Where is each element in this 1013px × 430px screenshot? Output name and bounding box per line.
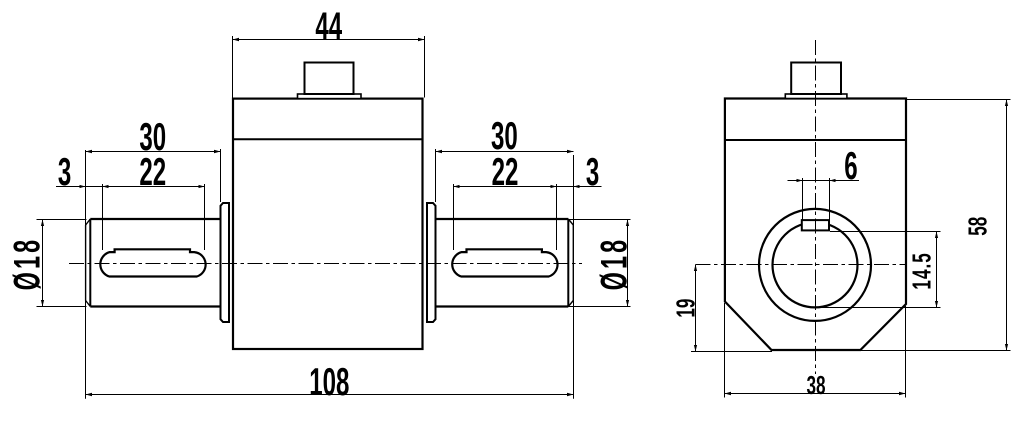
left flange: [221, 203, 230, 322]
dimension text Ø18 (left): [6, 237, 48, 291]
connector base plate (front view): [298, 94, 362, 99]
dimension text 22 (right): [492, 150, 519, 193]
svg-text:3: 3: [58, 150, 71, 193]
dimension 22 / 3 (left): [56, 184, 205, 250]
dimension text 30 (right): [491, 114, 518, 157]
svg-text:6: 6: [844, 144, 857, 187]
horizontal centerline (side view): [696, 264, 907, 266]
dimension text 108: [309, 360, 349, 403]
keyway slot (left shaft): [100, 249, 205, 276]
keyway notch (side view): [802, 220, 829, 230]
bore outer circle: [759, 209, 871, 321]
svg-text:Ø18: Ø18: [593, 237, 635, 291]
dimension text 22 (left): [139, 150, 166, 193]
body cap line (side view): [725, 139, 906, 141]
right flange: [427, 203, 436, 322]
vertical centerline (side view): [815, 40, 817, 374]
dimension 6 (keyway width): [788, 178, 860, 220]
dimension 30 (right): [436, 149, 574, 202]
dimension 44 (body width): [233, 36, 425, 98]
svg-text:14.5: 14.5: [907, 252, 937, 289]
dimension text Ø18 (right): [593, 237, 635, 291]
keyway slot (right shaft): [452, 249, 557, 276]
dimension text 3 (right): [586, 150, 599, 193]
svg-text:22: 22: [492, 150, 519, 193]
body (side view, chamfered base): [725, 99, 906, 351]
connector block (side view): [791, 63, 841, 95]
svg-text:3: 3: [586, 150, 599, 193]
dimension 38 (base width): [725, 303, 906, 398]
dimension text 6: [844, 144, 857, 187]
dimension 58 (body height): [860, 100, 1010, 351]
right shaft: [436, 219, 574, 307]
connector block (front view): [305, 63, 354, 95]
left shaft: [86, 219, 221, 307]
dimension 14.5 (keyway depth): [818, 232, 941, 308]
dimension text 38: [806, 370, 825, 400]
shaft inner circle: [773, 222, 858, 307]
dimension text 58: [963, 217, 993, 236]
dimension 22 / 3 (right): [454, 184, 602, 250]
dimension text 19: [671, 299, 701, 318]
svg-text:38: 38: [806, 370, 825, 400]
dimension text 3 (left): [58, 150, 71, 193]
dimension 30 (left): [86, 149, 221, 202]
svg-text:44: 44: [315, 5, 342, 48]
dimension Ø18 (left): [37, 220, 87, 307]
dimension text 44: [315, 5, 342, 48]
svg-text:Ø18: Ø18: [6, 237, 48, 291]
dimension text 14.5: [907, 252, 937, 289]
dimension 108 (overall length): [86, 150, 574, 399]
dimension text 30 (left): [139, 115, 166, 158]
horizontal centerline (front view): [69, 263, 582, 265]
dimension 19 (center height): [691, 265, 772, 352]
svg-text:22: 22: [139, 150, 166, 193]
dimension Ø18 (right): [567, 220, 631, 307]
svg-text:19: 19: [671, 299, 701, 318]
body cap line (front view): [233, 138, 423, 140]
body (front view): [233, 99, 423, 349]
svg-text:58: 58: [963, 217, 993, 236]
connector base plate (side view): [785, 94, 847, 99]
svg-text:108: 108: [309, 360, 349, 403]
